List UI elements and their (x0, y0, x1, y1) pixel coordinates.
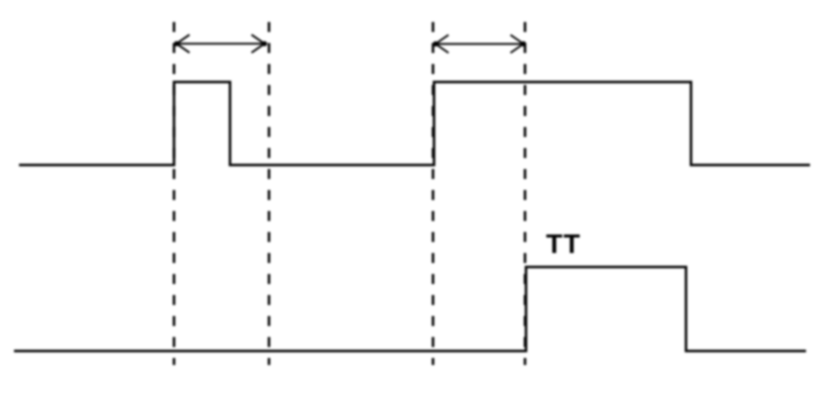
dashed reference line 4 (start of bottom pulse) (524, 22, 527, 365)
arrow 1 (interval measure between lines 1 and 2) (174, 35, 267, 53)
dashed reference line 2 (end of first interval) (268, 22, 271, 365)
wire: top waveform trace (input signal with short and long pulses) (19, 82, 810, 165)
wire: bottom waveform trace (output signal with single pulse) (14, 267, 806, 351)
label TT (output pulse name) (546, 229, 581, 259)
arrow 2 (interval measure between lines 3 and 4) (433, 35, 526, 53)
svg-text:TT: TT (546, 229, 581, 259)
dashed reference line 1 (left edge of first pulse) (173, 22, 176, 365)
dashed reference line 3 (left edge of second pulse) (432, 22, 435, 365)
